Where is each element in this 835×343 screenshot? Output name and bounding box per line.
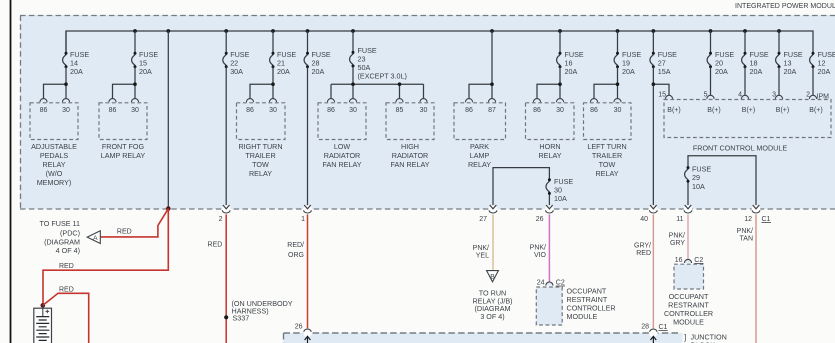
node: battery feed junction at IPM edge: [166, 206, 171, 211]
svg-text:RED: RED: [117, 229, 132, 236]
svg-text:28: 28: [641, 324, 649, 331]
svg-text:ORG: ORG: [288, 252, 304, 259]
svg-text:LOW: LOW: [334, 142, 351, 151]
svg-text:MEMORY): MEMORY): [37, 178, 72, 187]
relay K1 pin 30 connector: [62, 99, 69, 103]
fuse 30 10A: [546, 178, 551, 195]
svg-text:86: 86: [327, 107, 335, 114]
fuse 19 20A: [617, 31, 619, 53]
svg-text:1: 1: [301, 216, 305, 223]
IPM dashed border left: [20, 16, 22, 210]
svg-text:(EXCEPT 3.0L): (EXCEPT 3.0L): [358, 72, 407, 81]
svg-text:3 OF 4): 3 OF 4): [480, 312, 504, 321]
wire: fuse 28 to pin 1: [307, 67, 309, 205]
svg-text:20A: 20A: [139, 67, 152, 76]
svg-text:GRY/: GRY/: [634, 243, 651, 250]
relay K4 pin 86 connector: [327, 99, 334, 103]
wire RED to battery: [43, 209, 168, 305]
front control module U1 box: [664, 100, 831, 138]
IPM dashed border bottom: [20, 208, 835, 210]
relay K6 park lamp: feed wire from bus: [469, 31, 492, 99]
fuse 21 20A: [272, 31, 274, 53]
fuse 14 20A: [65, 31, 67, 53]
relay K3 pin 30 connector: [269, 99, 276, 103]
fuse 16 20A: [559, 31, 561, 53]
fuse 27 15A: [652, 31, 654, 53]
fuse 23 50A: [352, 31, 354, 52]
IPM output connector pin 11: [684, 205, 693, 214]
relay K6 park lamp relay box: [454, 103, 506, 140]
wire PNK/GRY from pin 11 to ORC pin 16: [687, 214, 689, 259]
svg-text:TOW: TOW: [252, 160, 269, 169]
node: bus junction at fuse 27: [651, 29, 655, 33]
svg-text:TRAILER: TRAILER: [245, 151, 275, 160]
svg-text:RED: RED: [636, 250, 651, 257]
svg-text:C2: C2: [556, 279, 565, 286]
svg-text:TOW: TOW: [599, 160, 616, 169]
relay K3 right turn trailer tow: feed wire from fuse 21: [250, 67, 273, 99]
node: bus junction at fuse 22: [224, 29, 228, 33]
svg-text:B(+): B(+): [667, 107, 680, 114]
svg-text:30: 30: [556, 107, 564, 114]
relay K7 horn relay box: [526, 103, 575, 140]
wire GRY/RED from pin 40 to junction block pin 28: [652, 214, 654, 328]
connector A triangle to fuse 11 PDC: [87, 231, 100, 244]
svg-text:15A: 15A: [658, 67, 671, 76]
node: fuse21 tee: [271, 82, 275, 86]
relay K8 left turn trailer tow: feed wire from fuse 19: [594, 67, 618, 99]
svg-text:RELAY: RELAY: [249, 169, 272, 178]
svg-text:RELAY: RELAY: [42, 160, 65, 169]
IPM output connector pin 27: [489, 205, 498, 214]
svg-text:4 OF 4): 4 OF 4): [56, 246, 80, 255]
IPM output connector pin 40: [649, 205, 658, 214]
svg-text:RELAY: RELAY: [538, 151, 561, 160]
svg-text:FRONT CONTROL MODULE: FRONT CONTROL MODULE: [693, 144, 787, 153]
junction block input connector pin 28: [649, 328, 658, 343]
fuse 29 10A: [685, 166, 690, 183]
svg-text:(PDC): (PDC): [60, 228, 80, 237]
relay K8 left turn trailer tow relay box: [584, 103, 632, 140]
node: fuse15 tee: [133, 82, 137, 86]
wire: fuse 27 to pin 40 and FCM pin 15: [653, 67, 813, 205]
svg-text:20A: 20A: [312, 67, 325, 76]
svg-text:INTEGRATED POWER MODULE: INTEGRATED POWER MODULE: [735, 3, 835, 10]
svg-text:20A: 20A: [565, 67, 578, 76]
svg-text:LAMP RELAY: LAMP RELAY: [101, 151, 146, 160]
relay K6 pin 86 connector: [465, 99, 472, 103]
page left border line: [10, 0, 12, 343]
relay K4 low radiator fan relay box: [318, 103, 366, 140]
wire: fuse 30 link pin 27 to pin 26: [493, 168, 549, 206]
relay K7 pin 30 connector: [556, 99, 563, 103]
svg-text:2: 2: [806, 92, 810, 99]
svg-text:27: 27: [479, 216, 487, 223]
svg-text:MODULE: MODULE: [673, 318, 704, 327]
FCM pin 5 connector: [707, 95, 714, 99]
node: bus junction at fuse 23: [351, 29, 355, 33]
connector B triangle to run relay: [487, 271, 499, 282]
svg-text:20A: 20A: [715, 67, 728, 76]
svg-text:(DIAGRAM: (DIAGRAM: [44, 237, 80, 246]
relay K1 adjustable pedals relay box: [30, 103, 78, 140]
integrated power module interior fill: [20, 15, 835, 209]
svg-text:PNK/: PNK/: [473, 245, 489, 252]
FCM pin 3 connector: [775, 95, 782, 99]
fuse 12 20A: [810, 52, 815, 69]
svg-text:3: 3: [772, 92, 776, 99]
svg-text:86: 86: [40, 107, 48, 114]
svg-text:20A: 20A: [622, 67, 635, 76]
svg-text:10A: 10A: [554, 194, 567, 203]
relay K3 pin 86 connector: [246, 99, 253, 103]
svg-text:PEDALS: PEDALS: [40, 151, 69, 160]
wire: fuse 29 link pin 11 to pin 12: [688, 156, 756, 206]
svg-text:PNK/: PNK/: [737, 228, 753, 235]
svg-text:4: 4: [738, 92, 742, 99]
relay K8 pin 30 connector: [614, 99, 621, 103]
svg-text:26: 26: [536, 216, 544, 223]
svg-text:PNK/: PNK/: [530, 245, 546, 252]
svg-text:20A: 20A: [784, 67, 797, 76]
svg-text:30: 30: [62, 107, 70, 114]
svg-text:TAN: TAN: [740, 236, 753, 243]
wire PNK/TAN from pin 12: [755, 214, 757, 343]
node: bus junction at fuse 13: [777, 29, 781, 33]
relay K2 front fog lamp relay box: [99, 103, 147, 140]
svg-text:11: 11: [676, 216, 683, 223]
svg-text:VIO: VIO: [534, 252, 547, 259]
relay K7 pin 86 connector: [533, 99, 540, 103]
fuse 20 20A: [710, 31, 712, 53]
svg-text:S337: S337: [233, 313, 250, 322]
svg-text:2: 2: [219, 216, 223, 223]
svg-text:LEFT TURN: LEFT TURN: [587, 142, 626, 151]
svg-text:30: 30: [131, 107, 139, 114]
svg-text:RADIATOR: RADIATOR: [392, 151, 428, 160]
wire RED battery to underbody harness: [43, 293, 89, 343]
node: fuse16 tee: [558, 82, 562, 86]
svg-text:TRAILER: TRAILER: [592, 151, 622, 160]
IPM output connector pin 12: [752, 205, 761, 214]
svg-text:87: 87: [488, 107, 496, 114]
svg-text:B(+): B(+): [707, 107, 720, 114]
svg-text:30A: 30A: [230, 67, 243, 76]
svg-text:86: 86: [465, 107, 473, 114]
svg-text:LAMP: LAMP: [470, 151, 490, 160]
svg-text:20A: 20A: [818, 67, 831, 76]
relay K4 pin 30 connector: [349, 99, 356, 103]
svg-text:RED/: RED/: [287, 242, 304, 249]
feed wire from fuse 23 to radiator fan relays: [331, 67, 424, 99]
relay K5 pin 30 connector: [420, 99, 427, 103]
svg-text:TO FUSE 11: TO FUSE 11: [40, 219, 80, 228]
wire RED/ORG from pin 1 to junction block pin 26: [307, 214, 309, 328]
FCM pin 15 connector: [665, 95, 672, 99]
svg-text:C2: C2: [694, 257, 703, 264]
wire RED to fuse 11 connector A: [100, 209, 168, 237]
svg-text:(W/O: (W/O: [46, 169, 63, 178]
svg-text:PARK: PARK: [470, 142, 489, 151]
wire: fuse 22 to pin 2: [225, 67, 227, 205]
svg-text:5: 5: [704, 92, 708, 99]
svg-text:15: 15: [658, 92, 666, 99]
splice S337: [224, 315, 228, 319]
node: high radiator tee: [398, 82, 402, 86]
wire RED from pin 2: [225, 214, 227, 343]
wire PNK/YEL from pin 27: [492, 214, 494, 269]
svg-text:30: 30: [349, 107, 357, 114]
occupant restraint controller module box 1: [536, 287, 562, 325]
svg-text:C1: C1: [762, 216, 771, 223]
svg-text:30: 30: [420, 107, 428, 114]
svg-text:40: 40: [640, 216, 648, 223]
relay K6 pin 87 connector: [488, 99, 495, 103]
svg-text:29: 29: [692, 173, 700, 182]
svg-text:20A: 20A: [70, 67, 83, 76]
svg-text:HORN: HORN: [539, 142, 560, 151]
svg-text:FAN RELAY: FAN RELAY: [322, 160, 361, 169]
relay K1 pin 86 connector: [40, 99, 47, 103]
wire PNK/VIO from pin 26 to ORC pin 24: [548, 214, 550, 282]
node: bus junction at fuse 18: [743, 29, 747, 33]
relay K5 high radiator fan relay box: [386, 103, 434, 140]
occupant restraint controller module box 2: [674, 264, 704, 289]
node: fuse19 tee: [616, 82, 620, 86]
fuse 15 20A: [134, 31, 136, 53]
fuse 18 20A: [744, 31, 746, 53]
svg-text:ADJUSTABLE: ADJUSTABLE: [31, 142, 77, 151]
svg-text:RELAY: RELAY: [595, 169, 618, 178]
fuse 13 20A: [778, 31, 780, 53]
node: fuse14 tee: [64, 82, 68, 86]
svg-text:16: 16: [675, 257, 683, 264]
svg-text:RIGHT TURN: RIGHT TURN: [238, 142, 282, 151]
IPM dashed border top: [20, 15, 835, 17]
node: fuse23 tee: [351, 82, 355, 86]
svg-text:86: 86: [590, 107, 598, 114]
relay K5 pin 85 connector: [396, 99, 403, 103]
IPM output connector pin 2: [222, 205, 231, 214]
node: bus junction at fuse 20: [709, 29, 713, 33]
svg-text:30: 30: [269, 107, 277, 114]
svg-text:24: 24: [537, 279, 545, 286]
fuse 28 20A: [307, 31, 309, 53]
node: fuse27 tee: [652, 82, 656, 86]
svg-text:85: 85: [396, 107, 404, 114]
svg-text:B(+): B(+): [809, 107, 822, 114]
svg-text:B: B: [490, 273, 495, 280]
svg-text:RED: RED: [59, 286, 74, 293]
relay K7 horn: feed wire from fuse 16: [537, 67, 560, 99]
node: bus junction at fuse 28: [306, 29, 310, 33]
FCM pin 4 connector: [741, 95, 748, 99]
svg-text:HIGH: HIGH: [401, 142, 419, 151]
junction block dashed left edge: [283, 333, 285, 343]
svg-text:26: 26: [295, 324, 303, 331]
relay K8 pin 86 connector: [590, 99, 597, 103]
node: bus junction at fuse 15: [133, 29, 137, 33]
node: bus junction at battery feed: [166, 29, 170, 33]
node: bus junction at fuse 19: [616, 29, 620, 33]
junction block input connector pin 26: [303, 328, 312, 343]
FCM pin 2 connector: [809, 95, 816, 99]
svg-text:C1: C1: [659, 324, 668, 331]
svg-text:86: 86: [533, 107, 541, 114]
svg-text:RADIATOR: RADIATOR: [324, 151, 360, 160]
battery G1: [34, 305, 52, 343]
svg-text:RED: RED: [208, 241, 223, 248]
relay K1 adjustable pedals: feed wire from fuse 14: [44, 67, 67, 99]
svg-text:GRY: GRY: [670, 240, 685, 247]
relay K2 pin 30 connector: [131, 99, 138, 103]
svg-text:10A: 10A: [692, 182, 705, 191]
svg-text:RELAY: RELAY: [468, 160, 491, 169]
node: bus junction at park lamp feed: [490, 29, 494, 33]
node: bus junction at fuse 16: [558, 29, 562, 33]
svg-text:RED: RED: [59, 263, 74, 270]
wire: bus to battery-feed drop: [167, 31, 169, 209]
bus wire (B+ feed): [66, 31, 813, 53]
svg-text:20A: 20A: [277, 67, 290, 76]
node: bus junction at fuse 21: [271, 29, 275, 33]
junction block interior fill: [284, 333, 683, 343]
node: park lamp tee: [490, 82, 494, 86]
fuse 22 30A: [225, 31, 227, 53]
svg-text:B(+): B(+): [776, 107, 789, 114]
svg-text:FAN RELAY: FAN RELAY: [390, 160, 429, 169]
svg-text:30: 30: [614, 107, 622, 114]
relay K2 pin 86 connector: [109, 99, 116, 103]
svg-text:]: ]: [684, 333, 686, 342]
svg-text:12: 12: [744, 216, 752, 223]
ORC module pin 16 connector: [684, 259, 691, 263]
svg-text:86: 86: [246, 107, 254, 114]
IPM output connector pin 26: [545, 205, 554, 214]
svg-text:20A: 20A: [750, 67, 763, 76]
svg-text:A: A: [93, 235, 98, 242]
ORC module pin 24 connector: [546, 282, 553, 286]
svg-text:YEL: YEL: [476, 253, 489, 260]
junction block dashed top edge: [284, 332, 682, 334]
svg-text:86: 86: [109, 107, 117, 114]
node: battery positive junction: [41, 303, 46, 308]
IPM output connector pin 1: [303, 205, 312, 214]
relay K3 right turn trailer tow relay box: [237, 103, 286, 140]
svg-text:MODULE: MODULE: [567, 312, 598, 321]
svg-text:FRONT FOG: FRONT FOG: [102, 142, 145, 151]
svg-text:B(+): B(+): [742, 107, 755, 114]
relay K2 front fog lamp: feed wire from fuse 15: [113, 67, 136, 99]
svg-text:PNK/: PNK/: [669, 232, 685, 239]
